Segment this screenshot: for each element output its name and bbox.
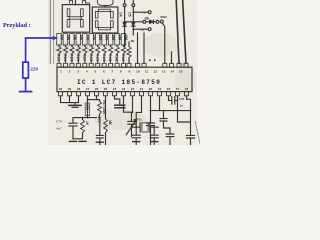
resistor 220: [23, 62, 29, 78]
resistor R143 200: [121, 34, 126, 45]
wire: [124, 96, 133, 112]
wire: [184, 63, 188, 67]
resistor R135 200: [70, 34, 75, 45]
svg-text:220: 220: [30, 67, 38, 72]
IC1 bottom pins: [59, 92, 63, 96]
resistor R144 3K: [128, 42, 130, 46]
svg-text:R143: R143: [121, 54, 125, 62]
svg-text:Przykład :: Przykład :: [3, 22, 31, 29]
svg-text:1K: 1K: [85, 121, 89, 126]
wire: [53, 0, 55, 64]
svg-text:R138: R138: [89, 54, 93, 62]
svg-text:123456789101112131415: 123456789101112131415: [60, 70, 183, 74]
svg-text:SW2: SW2: [160, 15, 167, 19]
svg-text:C74: C74: [56, 120, 62, 124]
ground: [151, 141, 158, 143]
op-amp U1 IC1 LC7185-8750: [57, 67, 192, 91]
resistor R138 200: [89, 34, 94, 45]
capacitor C81: [160, 111, 174, 145]
svg-text:R134: R134: [63, 54, 67, 62]
resistor R140 200: [102, 34, 107, 45]
node A: [149, 59, 151, 61]
svg-text:R137: R137: [82, 54, 86, 62]
wire: [178, 96, 191, 122]
wire: [75, 0, 77, 5]
svg-text:R142: R142: [115, 54, 119, 62]
capacitor C78: [153, 126, 155, 128]
wire: [49, 0, 51, 64]
svg-text:IC 1 LC7 185-8750: IC 1 LC7 185-8750: [77, 79, 161, 86]
svg-text:302928272625242322212019181716: 302928272625242322212019181716: [59, 87, 189, 91]
wire: [143, 33, 145, 63]
capacitor C73: [87, 96, 89, 118]
resistor R67 100K: [88, 99, 100, 101]
resistor R141 200: [108, 34, 113, 45]
svg-text:D5: D5: [127, 12, 131, 16]
svg-text:9: 9: [143, 11, 145, 15]
wire: [137, 33, 139, 63]
wire: [98, 0, 114, 5]
svg-text:R139: R139: [95, 54, 99, 62]
capacitor C80: [147, 111, 155, 145]
svg-text:4n7: 4n7: [57, 126, 62, 130]
svg-text:R140: R140: [102, 54, 106, 62]
resistor R133 200: [57, 34, 62, 45]
display DS2: [92, 7, 118, 33]
ground: [70, 140, 77, 142]
svg-text:R133: R133: [57, 54, 61, 62]
svg-text:R135: R135: [70, 54, 74, 62]
svg-text:D4: D4: [119, 12, 123, 16]
ground: [79, 140, 86, 142]
svg-text:D1: D1: [86, 1, 90, 5]
wire: [177, 63, 181, 67]
wire: [176, 0, 179, 63]
svg-text:R141: R141: [108, 54, 112, 62]
ground: [19, 91, 33, 93]
wire: [26, 38, 54, 62]
diode D5: [132, 0, 134, 4]
wire: [171, 52, 173, 63]
resistor R134 200: [63, 34, 68, 45]
svg-text:200: 200: [124, 35, 128, 41]
wire: [61, 96, 79, 103]
resistor R66 1M: [105, 96, 107, 119]
capacitor C79: [187, 96, 195, 145]
ground: [74, 103, 76, 106]
resistor R139 200: [95, 34, 100, 45]
svg-text:1M: 1M: [108, 120, 112, 125]
resistor R137 200: [83, 34, 88, 45]
display DS1: [62, 5, 89, 33]
wire: [183, 0, 186, 63]
svg-text:R136: R136: [76, 54, 80, 62]
svg-text:C72: C72: [179, 97, 185, 101]
resistor R68 1K: [73, 117, 97, 119]
wire bus: [151, 96, 191, 111]
trimmer capacitor CT1: [128, 112, 135, 136]
svg-text:X1: X1: [138, 118, 142, 122]
capacitor C77: [135, 126, 137, 128]
wire: [163, 63, 167, 67]
capacitor C76: [115, 96, 120, 105]
ground: [96, 141, 103, 143]
diode D4: [124, 0, 126, 4]
resistor R142 200: [115, 34, 120, 45]
svg-text:C73: C73: [85, 104, 89, 110]
wire: [25, 78, 27, 91]
resistor R136 200: [76, 34, 81, 45]
ground: [133, 141, 140, 143]
svg-text:2p: 2p: [180, 104, 184, 108]
